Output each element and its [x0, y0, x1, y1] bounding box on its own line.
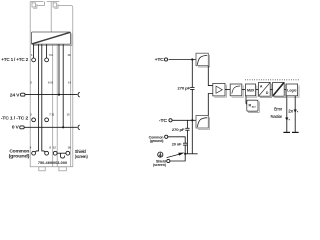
wire C1 to shield rail [191, 120, 193, 154]
svg-text:7 11: 7 11 [49, 112, 54, 116]
terminal 1 [32, 58, 36, 62]
svg-text:24 V: 24 V [10, 92, 20, 97]
0V continuation arc [78, 125, 80, 130]
svg-text:+TC 1 / +TC 2: +TC 1 / +TC 2 [1, 57, 29, 62]
amp out wire [225, 89, 230, 91]
junction dot 24V [58, 94, 60, 96]
label box with diagonal [32, 32, 72, 46]
wire pin1 [33, 44, 35, 58]
svg-text:6 10: 6 10 [48, 81, 54, 85]
capacitor C2 270pF [172, 120, 190, 154]
svg-text:750-469/003-000: 750-469/003-000 [38, 161, 67, 165]
Common terminal right [165, 135, 168, 138]
terminal 3 [32, 118, 36, 122]
svg-text:-TC 1 / -TC 2: -TC 1 / -TC 2 [1, 115, 29, 120]
LED line right [294, 96, 296, 132]
wire F3-MUX [242, 89, 246, 91]
module internal separators [51, 2, 70, 167]
Common wire [168, 137, 185, 143]
earth symbol [158, 152, 163, 157]
terminal 4 [32, 151, 36, 155]
svg-text:(ground): (ground) [9, 154, 30, 159]
wire ISO-Logic [284, 89, 286, 91]
svg-text:-TC: -TC [159, 118, 168, 123]
0V plug [20, 126, 24, 129]
svg-text:20 nF: 20 nF [172, 143, 182, 147]
wire ADC-ISO [270, 89, 272, 91]
junction dot shield node [184, 153, 186, 155]
wire pin4 [35, 44, 39, 152]
svg-text:Error: Error [274, 107, 282, 112]
svg-text:270 pF: 270 pF [177, 86, 191, 90]
svg-text:270 pF: 270 pF [172, 128, 186, 132]
svg-text:0 V: 0 V [12, 124, 19, 129]
24V rail [25, 94, 78, 96]
input filter F1 [196, 53, 210, 67]
F1 output wire [208, 66, 213, 86]
+TC wire [169, 59, 197, 61]
Logic [286, 84, 299, 97]
terminal 16 [66, 151, 70, 155]
F2 output wire [208, 94, 213, 116]
foot 2 [59, 167, 66, 171]
wire MUX-ADC [256, 89, 259, 91]
LED D2 left [285, 118, 289, 121]
terminal 12 [53, 151, 57, 155]
LED D1 right [294, 110, 298, 113]
-TC wire [172, 119, 196, 121]
input filter F2 [196, 116, 210, 130]
svg-text:+TC: +TC [155, 57, 165, 62]
module outline [30, 2, 73, 167]
svg-text:2x: 2x [288, 109, 293, 114]
amplifier U1 [213, 83, 227, 97]
svg-text:Function: Function [271, 114, 283, 119]
0V rail [24, 126, 77, 128]
24V plug [21, 93, 25, 96]
svg-text:ADJ: ADJ [252, 106, 256, 109]
svg-text:Logic: Logic [287, 87, 297, 92]
terminal 5/9 [45, 58, 49, 62]
24V continuation arc [78, 92, 80, 97]
Shield terminal right [167, 159, 170, 162]
isolation dotted line [245, 79, 299, 81]
shield rail [185, 153, 197, 155]
bus contact claw 2 [53, 2, 58, 9]
terminal 8 [45, 151, 49, 155]
ground G2 left [283, 131, 290, 133]
earth arrow [167, 153, 185, 158]
capacitor C3 20nF [172, 143, 188, 154]
claw link wire [37, 2, 73, 8]
-TC terminal [169, 119, 172, 122]
ground G1 right [292, 131, 299, 133]
isolation stage [273, 82, 286, 97]
junction dot -TC/C1 [191, 119, 193, 121]
junction dot 0V [62, 126, 64, 128]
wire 0V feed [62, 44, 64, 127]
R adj [246, 96, 259, 113]
MUX [245, 84, 257, 97]
ADC A/D [259, 82, 272, 97]
shield jumper 12-16 [57, 152, 66, 154]
svg-text:MUX: MUX [247, 88, 255, 92]
svg-text:(screen): (screen) [75, 154, 88, 159]
junction dot +TC/C1 [191, 58, 193, 60]
LED line left [286, 96, 288, 132]
bus contact claw 1 [32, 2, 37, 9]
capacitor C1 270pF [177, 60, 194, 121]
svg-text:5 9: 5 9 [49, 53, 53, 57]
svg-text:(ground): (ground) [150, 139, 165, 143]
Shield wire [170, 154, 185, 161]
foot 1 [39, 167, 45, 171]
+TC terminal [164, 58, 167, 61]
filter F3 [230, 84, 243, 97]
wire pin8 [42, 44, 45, 152]
svg-text:(screen): (screen) [153, 163, 167, 167]
terminal 7/11 [45, 118, 49, 122]
wire pin5/9 [46, 44, 48, 58]
wire 24V feed [58, 44, 60, 94]
